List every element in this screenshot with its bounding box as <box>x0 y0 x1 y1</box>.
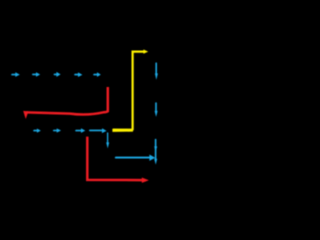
arrow I4 <box>75 72 82 77</box>
circuit current-flow annotation diagram on black background <box>0 0 200 200</box>
right-branch down arrow D1 <box>155 63 158 79</box>
long horizontal arrow J6 <box>116 155 155 161</box>
arrow J1 <box>34 129 41 133</box>
arrow I5 <box>94 72 101 77</box>
corner down arrow J5 <box>106 133 109 148</box>
arrow J2 <box>54 128 61 132</box>
yellow wire path with right arrowhead <box>112 50 148 131</box>
arrow J3 <box>76 128 85 133</box>
arrow J4 long <box>90 128 107 133</box>
arrow I1 <box>12 72 20 77</box>
arrow I3 <box>54 72 60 77</box>
arrow I2 <box>33 72 40 77</box>
red wire 1: down then left, ending in down arrowhead <box>23 87 108 119</box>
right-branch down line with two arrowheads D3 <box>154 140 157 165</box>
red wire 2: down then right, ending in right arrowhead <box>87 137 149 183</box>
right-branch down arrow D2 <box>155 103 158 117</box>
